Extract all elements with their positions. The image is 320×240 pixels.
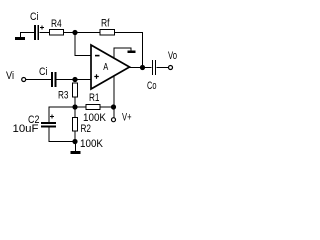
wire C2 top connection — [49, 107, 50, 141]
svg-text:A: A — [103, 62, 108, 73]
node output junction — [140, 65, 145, 70]
resistor R3 — [73, 83, 78, 97]
node junction Vi/R3 — [72, 77, 77, 82]
op-amp U1 (A) triangle — [91, 45, 130, 89]
minus input marker — [95, 55, 100, 57]
resistor R2 — [73, 118, 78, 132]
wire bias rail — [49, 107, 115, 108]
resistor R1 — [86, 105, 100, 110]
resistor Rf — [100, 30, 115, 36]
svg-text:V+: V+ — [122, 112, 132, 124]
wire R2 bottom stub — [75, 131, 76, 141]
svg-text:Vo: Vo — [168, 50, 177, 62]
wire junction down to inverting input — [75, 32, 76, 55]
wire Ci to R4 — [40, 32, 50, 33]
svg-text:Vi: Vi — [6, 70, 14, 82]
node junction C2/R2/ground — [72, 139, 77, 144]
wire inverting input — [75, 55, 92, 56]
ground (top-left) — [15, 32, 25, 40]
wire Vi to Ci bottom — [26, 79, 51, 80]
terminal Vo (open circle) — [169, 66, 173, 70]
svg-text:10uF: 10uF — [13, 123, 39, 135]
capacitor C2 — [41, 122, 56, 128]
node junction R3/R2/rail — [72, 104, 77, 109]
terminal Vi (open circle) — [22, 78, 26, 82]
capacitor Ci (input coupling, top) — [34, 25, 39, 40]
wire feedback vertical — [142, 32, 143, 67]
polarity + of Ci — [40, 26, 44, 30]
op-amp ground pin with ground symbol — [114, 48, 136, 59]
svg-text:100K: 100K — [80, 138, 104, 150]
plus input marker — [94, 74, 99, 79]
wire op-amp output — [130, 67, 152, 68]
svg-text:R1: R1 — [89, 92, 100, 104]
ground (bottom) — [71, 142, 81, 155]
wire R3 bottom to rail — [75, 97, 76, 107]
wire R2 top stub — [75, 107, 76, 118]
wire Ci to noninverting input — [57, 79, 92, 80]
resistor R4 — [50, 30, 64, 36]
svg-text:Ci: Ci — [39, 66, 48, 78]
svg-text:R2: R2 — [81, 123, 92, 135]
wire C2 bottom to ground node — [49, 141, 76, 142]
svg-text:Co: Co — [147, 80, 157, 92]
svg-text:R4: R4 — [51, 18, 62, 30]
polarity + of C2 — [50, 115, 54, 119]
node junction R1/V+ — [111, 104, 116, 109]
wire op-amp V+ pin down to terminal — [114, 76, 115, 118]
node junction R4/Rf/inverting input — [72, 30, 77, 35]
svg-text:R3: R3 — [58, 90, 69, 102]
wire Co to Vo terminal — [156, 67, 168, 68]
wire R4 to Rf — [64, 32, 101, 33]
terminal V+ (open circle) — [112, 118, 116, 122]
wire ground to Ci — [20, 32, 34, 33]
wire Rf to feedback corner — [115, 32, 144, 33]
capacitor Co — [152, 60, 156, 75]
svg-text:Rf: Rf — [101, 18, 110, 30]
svg-text:Ci: Ci — [30, 11, 39, 23]
capacitor Ci (bottom input) — [51, 72, 57, 87]
